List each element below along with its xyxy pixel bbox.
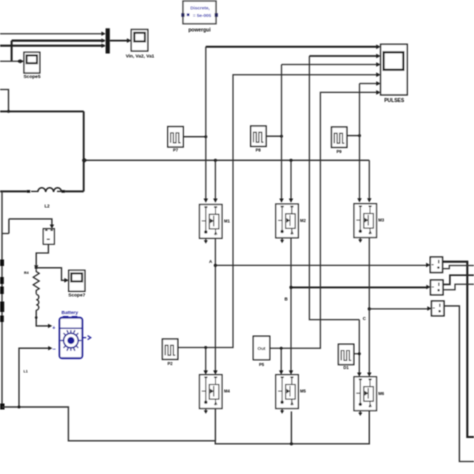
wire to measurement block (3, 219, 55, 234)
M2 stub (280, 238, 284, 243)
measurement block A (430, 257, 442, 273)
node on Scope5 wire (18, 60, 21, 63)
mux (106, 28, 110, 53)
wire mux output to scope (110, 38, 132, 43)
svg-text:P5: P5 (259, 362, 265, 367)
wire M3 drain from bus (367, 160, 371, 202)
wire into subsystem top edge (0, 90, 10, 113)
resistor R4 (24, 270, 39, 293)
wire phase leg B vertical (289, 238, 293, 375)
wire left rail down (1, 191, 3, 407)
svg-text:M3: M3 (378, 218, 384, 223)
svg-text:M4: M4 (224, 389, 230, 394)
wire dc loop top edge (0, 110, 84, 112)
svg-text:Scope5: Scope5 (23, 74, 40, 80)
powergui block (181, 1, 217, 33)
wire M4 source to return bus (214, 409, 216, 441)
wire L1 to battery plus (35, 310, 52, 328)
svg-text:+: + (52, 325, 55, 331)
wire mux input 3 (thick) (0, 44, 106, 48)
pulse generator P2 (162, 339, 177, 359)
wire measurement A out2 (443, 266, 474, 269)
wire battery minus return (19, 346, 52, 407)
wire P7 output (183, 135, 207, 138)
svg-text:Vin, Va2, Va1: Vin, Va2, Va1 (126, 53, 155, 58)
transistor M2 (276, 204, 299, 238)
wire measurement A out1 (thick) (443, 262, 474, 437)
svg-text:L2: L2 (44, 204, 50, 209)
wire M5 source to return bus (290, 411, 292, 443)
block Out (P5) (253, 336, 269, 367)
pulse generator D1 (338, 344, 353, 364)
pulse generator P7 (168, 127, 183, 147)
net P9 to M3 gate and PULSES in5 (357, 81, 380, 202)
wire dc bus (84, 159, 370, 162)
wire M2 drain from bus (289, 160, 293, 203)
node dc bus tap (82, 158, 88, 164)
svg-text:= 5e-005: = 5e-005 (193, 13, 212, 18)
wire branch down to Scope5 (11, 41, 13, 62)
wire mux input 1 (0, 32, 106, 36)
wire dc loop right edge (83, 111, 85, 191)
transistor M4 (200, 375, 223, 409)
svg-text:powergui: powergui (188, 27, 211, 33)
measurement block C (432, 301, 445, 316)
M3 stub (358, 238, 362, 243)
wire P9 output (347, 134, 361, 137)
M5 stub (280, 409, 284, 414)
svg-text:R4: R4 (24, 271, 29, 275)
wire bottom return path (2, 406, 369, 446)
cut-off component stubs at left edge (0, 260, 5, 410)
scope Vin, Va2, Va1 (126, 30, 155, 59)
pulse generator P9 (332, 127, 347, 147)
svg-text:P9: P9 (336, 149, 342, 154)
transistor M5 (276, 375, 299, 409)
svg-text:P7: P7 (173, 148, 179, 153)
wire phase C to measurement (369, 306, 431, 310)
wire phase leg C vertical (367, 238, 371, 377)
net D1 to M6 gate and PULSES in2 (309, 54, 380, 377)
wire measurement block to R (34, 244, 48, 269)
wire branch to Scope7 (36, 268, 68, 283)
net P7 to M1 gate and PULSES in1 (204, 45, 381, 203)
wire dc loop bottom right segment (65, 190, 84, 192)
battery Battery (52, 310, 90, 358)
svg-text:B: B (285, 297, 288, 302)
svg-text:Scope7: Scope7 (68, 292, 85, 298)
M4 stub (204, 409, 208, 414)
wire Scope5 input (0, 59, 24, 63)
scope Scope5 (23, 52, 40, 80)
svg-text:Discrete,: Discrete, (190, 6, 209, 11)
svg-text:L1: L1 (24, 370, 28, 374)
pulse generator P8 (251, 126, 266, 146)
svg-text:M2: M2 (300, 218, 306, 223)
svg-text:Battery: Battery (62, 310, 79, 316)
svg-text:PULSES: PULSES (384, 98, 405, 104)
transistor M3 (354, 204, 377, 238)
svg-text:M1: M1 (224, 219, 230, 224)
svg-text:M5: M5 (300, 389, 306, 394)
wire measurement B out1 (443, 275, 474, 284)
wire phase leg A vertical (213, 238, 217, 374)
wire dc loop bottom left segment (0, 190, 27, 192)
svg-text:P8: P8 (256, 148, 262, 153)
inductor L1 (24, 292, 39, 374)
M1 stub (204, 238, 208, 243)
svg-text:P2: P2 (167, 361, 173, 366)
transistor M1 (200, 205, 223, 239)
svg-text:Out: Out (258, 346, 266, 351)
wire measurement B out2 (443, 284, 474, 290)
wire mux input 2 (thick) (12, 38, 106, 42)
measurement block (43, 229, 54, 245)
wire phase A to measurement (215, 263, 430, 267)
wire M1 drain from bus (213, 160, 217, 203)
net P5 to M5 gate and PULSES in6 (270, 90, 381, 375)
transistor M6 (354, 377, 377, 411)
wire P8 output (266, 135, 283, 138)
net P2 to M4 gate and PULSES in4 (178, 72, 381, 374)
scope PULSES (381, 44, 408, 104)
svg-text:M6: M6 (378, 391, 384, 396)
scope Scope7 (68, 270, 85, 298)
inductor L2 (27, 188, 65, 209)
measurement block B (431, 280, 444, 295)
wire phase B to measurement (291, 285, 431, 289)
wire measurement C out (444, 306, 474, 462)
svg-text:D1: D1 (343, 365, 349, 370)
M6 stub (358, 411, 362, 416)
net P8 to M2 gate and PULSES in3 (279, 62, 380, 203)
